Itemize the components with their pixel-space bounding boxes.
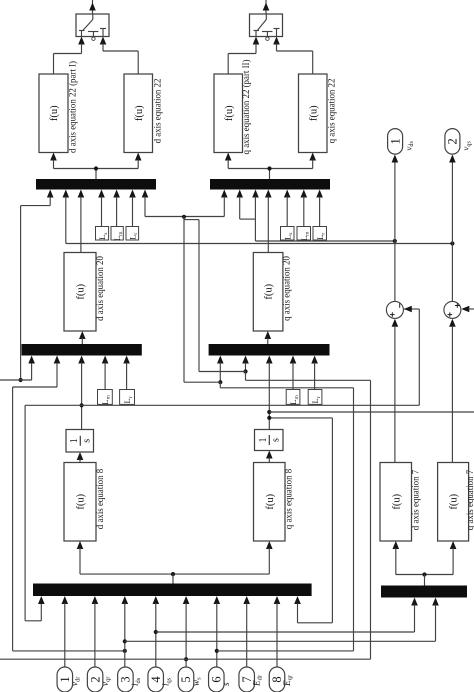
svg-text:1: 1 bbox=[58, 676, 72, 682]
svg-text:f(u): f(u) bbox=[134, 105, 145, 121]
svg-text:d axis equation 7: d axis equation 7 bbox=[410, 469, 420, 530]
svg-text:f(u): f(u) bbox=[449, 493, 460, 509]
svg-text:d axis equation 8: d axis equation 8 bbox=[95, 468, 105, 529]
svg-text:f(u): f(u) bbox=[76, 283, 87, 299]
svg-text:4: 4 bbox=[149, 676, 163, 683]
svg-text:f(u): f(u) bbox=[308, 105, 319, 121]
svg-text:f(u): f(u) bbox=[224, 105, 235, 121]
svg-text:s: s bbox=[81, 439, 92, 443]
svg-text:d axis equation 20: d axis equation 20 bbox=[95, 256, 105, 321]
svg-text:1: 1 bbox=[258, 438, 269, 443]
svg-text:f(u): f(u) bbox=[264, 283, 275, 299]
svg-text:1: 1 bbox=[69, 438, 80, 443]
svg-text:f(u): f(u) bbox=[391, 493, 402, 509]
svg-text:q axis equation 22 (part II): q axis equation 22 (part II) bbox=[241, 60, 251, 155]
svg-text:6: 6 bbox=[210, 676, 224, 682]
svg-text:s: s bbox=[221, 682, 231, 686]
svg-text:d axis equation 22: d axis equation 22 bbox=[153, 79, 163, 144]
svg-text:q axis equation 8: q axis equation 8 bbox=[284, 468, 294, 529]
svg-text:q axis equation 7: q axis equation 7 bbox=[465, 469, 474, 530]
svg-text:d axis equation 22 (part I): d axis equation 22 (part I) bbox=[68, 61, 78, 153]
svg-text:2: 2 bbox=[446, 138, 460, 144]
svg-text:f(u): f(u) bbox=[265, 493, 276, 509]
svg-text:q axis equation 20: q axis equation 20 bbox=[281, 256, 291, 321]
svg-text:f(u): f(u) bbox=[49, 105, 60, 121]
svg-text:f(u): f(u) bbox=[76, 493, 87, 509]
svg-text:s: s bbox=[270, 438, 281, 442]
svg-text:2: 2 bbox=[88, 676, 102, 682]
svg-text:q axis equation 22: q axis equation 22 bbox=[327, 79, 337, 144]
svg-text:1: 1 bbox=[388, 138, 402, 144]
svg-text:3: 3 bbox=[119, 676, 133, 682]
